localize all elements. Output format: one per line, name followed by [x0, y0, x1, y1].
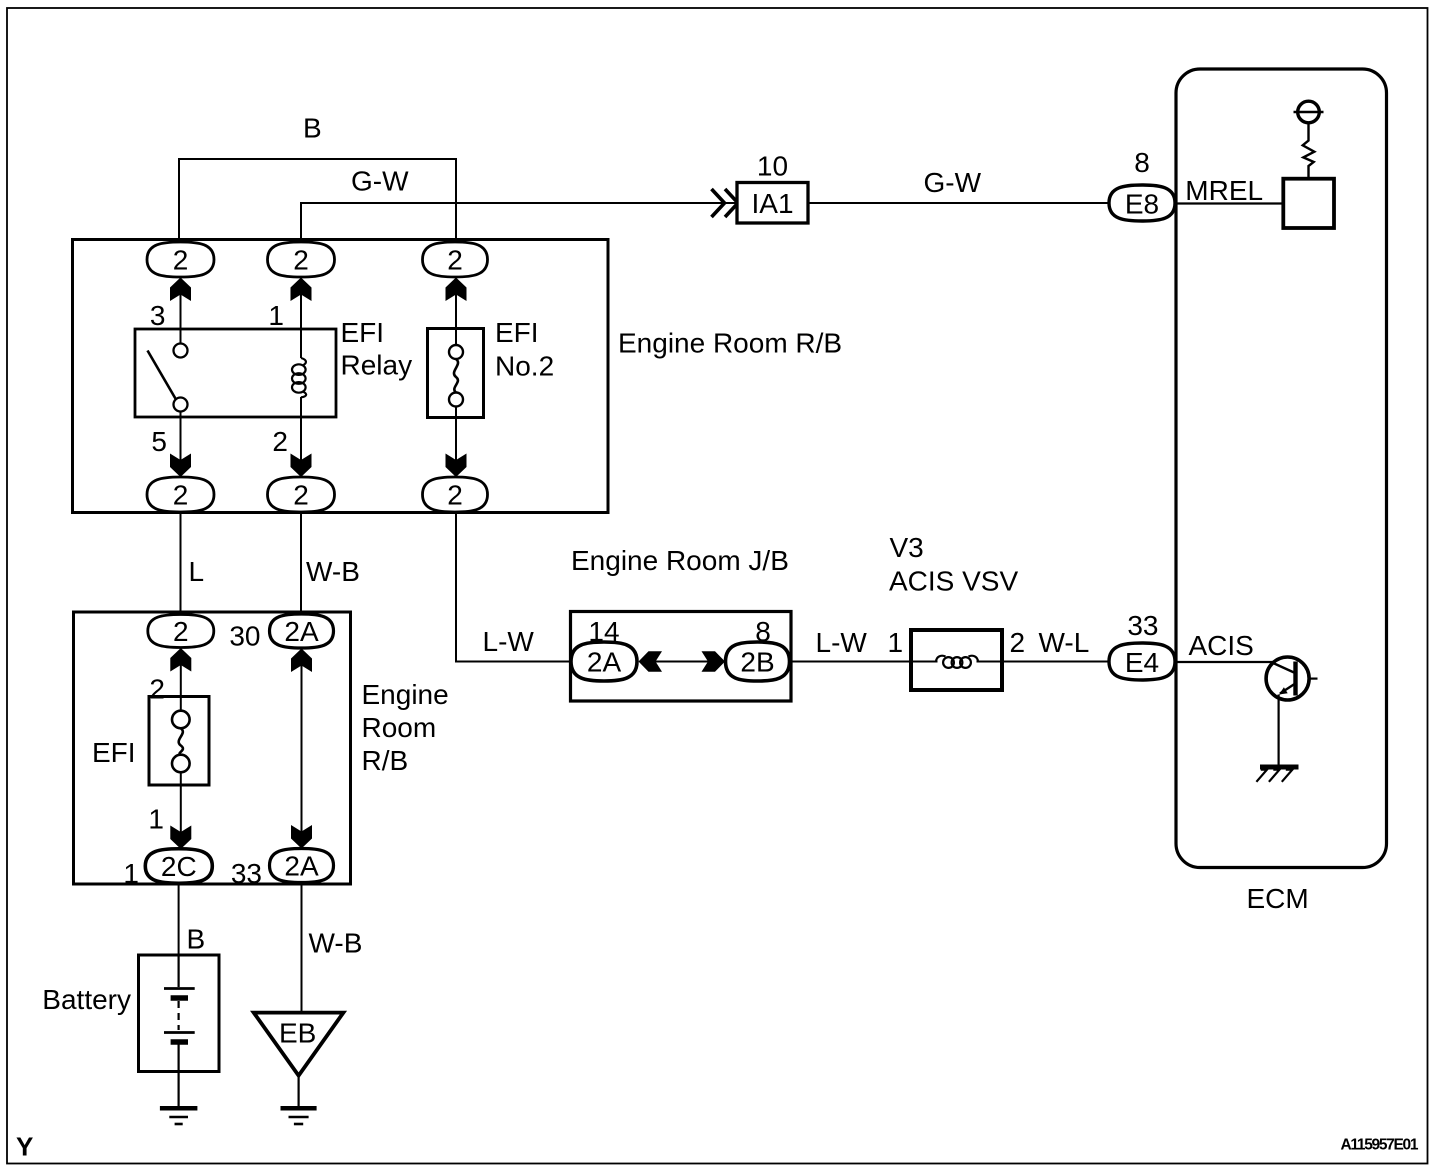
arrow right (into 2B)	[702, 651, 726, 672]
wire MREL (E8 to driver block)	[1175, 202, 1284, 204]
svg-text:Room: Room	[362, 712, 437, 743]
svg-text:8: 8	[755, 616, 771, 647]
svg-text:2: 2	[173, 245, 189, 276]
svg-text:2: 2	[149, 674, 165, 705]
connector oval 2B (J/B)	[726, 642, 790, 681]
connector oval 2 (top row, pin1)	[268, 242, 335, 277]
arrow down (EFI fuse out)	[170, 826, 191, 850]
wire G-W (relay coil to IA1)	[301, 203, 737, 242]
svg-text:2: 2	[293, 245, 309, 276]
VSV coil wire stubs	[911, 661, 938, 663]
Engine Room J/B box	[571, 612, 792, 702]
svg-text:Engine: Engine	[362, 679, 449, 710]
wire W-L (VSV to E4)	[1002, 661, 1109, 663]
svg-text:No.2: No.2	[495, 351, 554, 382]
wire EB to ground	[298, 1076, 300, 1107]
arrow up (pin3)	[170, 278, 191, 302]
EFI No.2 fuse box	[428, 329, 484, 418]
arrow up (EFI No.2)	[446, 278, 467, 302]
connector oval 2 (bottom row, pin2)	[268, 477, 335, 512]
svg-text:1: 1	[888, 627, 904, 658]
wire pin5 (relay switch to oval)	[180, 411, 182, 477]
connector oval 2A (lower box top)	[270, 614, 334, 648]
EFI No.2 fuse element	[449, 345, 463, 407]
svg-text:W-B: W-B	[306, 556, 360, 587]
ACIS VSV box V3	[911, 630, 1002, 690]
svg-text:Engine Room J/B: Engine Room J/B	[571, 545, 789, 576]
arrow down (EFI No.2 out)	[446, 454, 467, 478]
svg-text:2A: 2A	[284, 851, 319, 882]
svg-text:EFI: EFI	[495, 317, 539, 348]
arrow up (EFI fuse)	[170, 648, 191, 672]
junction connector IA1	[737, 183, 808, 224]
wire L-W (2B to VSV)	[790, 661, 914, 663]
svg-text:1: 1	[268, 300, 284, 331]
resistor inside ECM	[1303, 123, 1315, 179]
svg-text:ACIS: ACIS	[1189, 630, 1254, 661]
svg-text:2: 2	[293, 480, 309, 511]
arrow down (pin2)	[291, 454, 312, 478]
Engine Room R/B box (lower)	[74, 612, 351, 884]
connector E8	[1109, 185, 1175, 221]
connector oval 2A (J/B)	[571, 642, 637, 681]
connector oval 2 (top row, EFI No.2)	[423, 242, 488, 277]
arrow up (2A top)	[291, 649, 312, 673]
svg-text:R/B: R/B	[362, 745, 409, 776]
svg-text:30: 30	[229, 621, 260, 652]
svg-text:2: 2	[173, 480, 189, 511]
svg-text:2B: 2B	[740, 647, 774, 678]
wire EFI No.2 top (oval to fuse)	[455, 277, 457, 345]
wire B (2C to battery)	[178, 884, 180, 957]
svg-text:3: 3	[150, 300, 166, 331]
connector oval 2 (top row, pin3)	[147, 242, 214, 277]
wire EFI fuse bottom (fuse to 2C oval)	[180, 771, 182, 849]
svg-text:MREL: MREL	[1185, 175, 1263, 206]
connector oval 2C	[145, 849, 212, 884]
svg-text:L-W: L-W	[816, 627, 868, 658]
svg-text:ECM: ECM	[1247, 883, 1309, 914]
transistor (ECM output driver)	[1266, 657, 1317, 765]
svg-text:A115957E01: A115957E01	[1341, 1137, 1419, 1154]
svg-text:5: 5	[151, 426, 167, 457]
svg-text:B: B	[187, 924, 206, 955]
svg-text:E4: E4	[1125, 647, 1159, 678]
svg-text:1: 1	[148, 804, 164, 835]
svg-text:B: B	[303, 113, 322, 144]
svg-text:2A: 2A	[284, 616, 319, 647]
svg-text:14: 14	[588, 616, 619, 647]
svg-text:33: 33	[231, 858, 262, 889]
svg-text:G-W: G-W	[924, 167, 982, 198]
relay switch blade	[148, 351, 177, 400]
svg-text:W-L: W-L	[1039, 627, 1090, 658]
wire EFI No.2 bottom (fuse to oval)	[455, 406, 457, 477]
svg-text:G-W: G-W	[351, 166, 409, 197]
svg-text:ACIS VSV: ACIS VSV	[889, 566, 1018, 597]
connector oval 2A (lower box bottom)	[270, 849, 334, 883]
arrow up (pin1)	[291, 278, 312, 302]
svg-text:L: L	[189, 556, 205, 587]
wire L-W (EFI No.2 to J/B)	[456, 512, 572, 662]
connector IA1 double-arrow	[712, 189, 739, 217]
arrow left (into 2A)	[639, 651, 663, 672]
svg-text:IA1: IA1	[751, 188, 793, 219]
svg-text:EFI: EFI	[341, 317, 385, 348]
ground (battery)	[160, 1108, 198, 1124]
connector oval 2 (bottom row, EFI No.2 out)	[423, 477, 488, 512]
relay coil	[292, 358, 306, 397]
svg-text:2: 2	[272, 426, 288, 457]
wire L (upper R/B to lower R/B)	[180, 512, 182, 614]
svg-text:8: 8	[1134, 147, 1150, 178]
svg-text:2A: 2A	[587, 647, 622, 678]
wire G-W (IA1 to E8)	[808, 202, 1109, 204]
connector oval 2 (bottom row, pin5)	[147, 477, 214, 512]
svg-text:L-W: L-W	[483, 626, 535, 657]
Battery box	[139, 955, 220, 1072]
arrow down (pin5)	[170, 454, 191, 478]
wire W-B (upper R/B to lower R/B)	[300, 512, 302, 614]
wire W-B (2A to EB)	[301, 883, 303, 1014]
relay switch contact top	[174, 344, 188, 358]
wire pin1 (oval to relay coil)	[300, 277, 302, 358]
wire B net (battery feed jumper)	[179, 159, 456, 242]
svg-text:Relay: Relay	[341, 350, 413, 381]
ground point EB (triangle)	[254, 1013, 344, 1076]
wire EFI fuse top (oval to fuse)	[180, 647, 182, 712]
EFI fuse element	[172, 711, 190, 773]
relay switch contact bottom	[174, 398, 188, 412]
EFI fuse box (lower)	[149, 697, 209, 786]
svg-text:Battery: Battery	[42, 984, 131, 1015]
svg-text:2: 2	[1010, 627, 1026, 658]
power symbol (circle with bar) inside ECM	[1294, 101, 1324, 123]
svg-text:Y: Y	[16, 1132, 33, 1162]
Engine Room R/B box (upper)	[73, 240, 609, 513]
connector oval 2 (lower box top)	[148, 615, 214, 648]
svg-text:2: 2	[173, 616, 189, 647]
ECM box	[1176, 69, 1387, 868]
arrow down (2A bottom)	[291, 825, 312, 849]
wire inside J/B (2A to 2B)	[648, 661, 715, 663]
svg-text:EFI: EFI	[92, 737, 136, 768]
svg-text:2: 2	[447, 245, 463, 276]
wire pin2 (relay coil to oval)	[300, 397, 302, 477]
svg-text:1: 1	[123, 858, 139, 889]
connector E4	[1109, 643, 1175, 680]
svg-text:W-B: W-B	[309, 928, 363, 959]
svg-text:Engine Room R/B: Engine Room R/B	[618, 328, 842, 359]
ground (EB)	[281, 1108, 317, 1124]
VSV coil	[936, 656, 978, 668]
wire 30-33 (2A to 2A)	[301, 647, 303, 849]
ground (ECM internal, hatched)	[1256, 767, 1298, 782]
svg-text:V3: V3	[890, 532, 924, 563]
battery cells	[164, 955, 195, 1107]
EFI relay box	[135, 329, 336, 417]
wire pin3 (oval to relay switch)	[180, 277, 182, 344]
svg-text:10: 10	[757, 151, 788, 182]
svg-text:EB: EB	[279, 1018, 316, 1049]
wire ACIS (E4 to transistor)	[1175, 661, 1274, 663]
svg-text:33: 33	[1127, 610, 1158, 641]
svg-text:2C: 2C	[161, 851, 197, 882]
MREL driver block (square)	[1283, 179, 1334, 228]
svg-text:2: 2	[447, 480, 463, 511]
svg-text:E8: E8	[1125, 189, 1159, 220]
